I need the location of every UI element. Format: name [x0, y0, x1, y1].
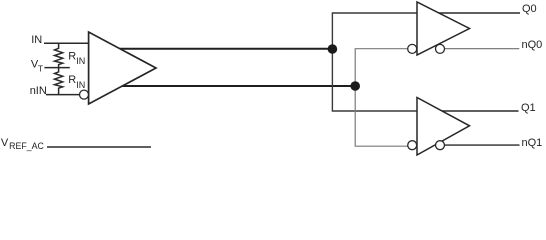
buffer U2 inverted output bubble [436, 44, 445, 53]
svg-text:R: R [68, 50, 76, 62]
resistor R_IN (upper, between IN and V_T) [55, 43, 63, 67]
svg-text:R: R [68, 74, 76, 86]
wire true net: node A up to top buffer input and down to bottom buffer input [332, 13, 417, 111]
svg-text:REF_AC: REF_AC [9, 141, 44, 151]
svg-text:nQ1: nQ1 [522, 137, 543, 149]
svg-text:V: V [1, 137, 9, 149]
wire V_T input [44, 67, 69, 69]
svg-text:nIN: nIN [30, 85, 47, 97]
svg-text:Q1: Q1 [521, 102, 536, 114]
wire complement net: node B up to top buffer inverting input, down to bottom buffer inverting input [355, 49, 408, 147]
wire nQ1 output [445, 144, 520, 146]
wire V_REF_AC [47, 146, 151, 148]
buffer U2 (Q0/nQ0) [417, 2, 470, 55]
resistor R_IN (lower, between V_T and nIN) [55, 68, 63, 95]
wire IN input [44, 42, 89, 44]
svg-text:nQ0: nQ0 [522, 39, 543, 51]
svg-text:T: T [38, 63, 43, 73]
inverting input bubble on main comparator [80, 90, 89, 99]
wire Q0 output [430, 12, 520, 14]
svg-text:IN: IN [76, 80, 85, 90]
wire nQ0 output [445, 48, 520, 50]
svg-text:IN: IN [31, 34, 42, 46]
op-amp A1 main input comparator [89, 32, 156, 104]
svg-text:IN: IN [76, 56, 85, 66]
wire main amp complement output (to node B) [121, 85, 355, 87]
buffer U3 inverting input bubble [408, 141, 417, 150]
buffer U3 (Q1/nQ1) [417, 98, 470, 156]
wire nIN input [46, 94, 80, 96]
node B junction dot [350, 81, 360, 91]
wire Q1 output [430, 110, 519, 112]
wire main amp true output (to node A) [120, 48, 333, 50]
node A junction dot [328, 44, 338, 54]
buffer U3 inverted output bubble [436, 141, 445, 150]
svg-text:Q0: Q0 [522, 3, 537, 15]
buffer U2 inverting input bubble [408, 44, 417, 53]
